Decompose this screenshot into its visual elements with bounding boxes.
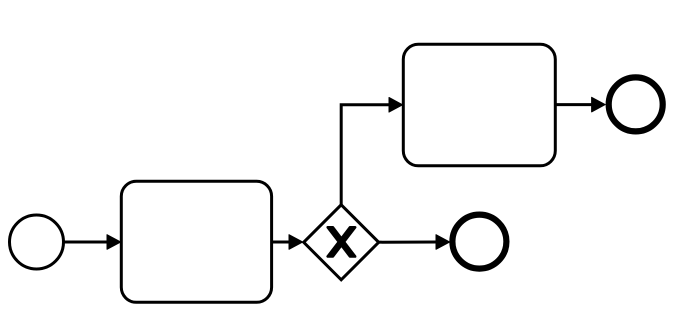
sequence flow: gateway to end event 1 [378, 235, 450, 250]
end event 1 [452, 215, 506, 269]
start event [10, 215, 64, 269]
task 1 [121, 181, 271, 302]
end event 2 [609, 77, 663, 131]
sequence flow: task 2 to end event 2 [555, 97, 605, 112]
gateway X marker [328, 227, 355, 256]
sequence flow: gateway to task 2 [341, 98, 402, 206]
sequence flow: start event to task 1 [64, 235, 121, 250]
sequence flow: task 1 to gateway [272, 235, 303, 250]
task 2 [403, 44, 555, 166]
exclusive gateway [304, 205, 379, 280]
